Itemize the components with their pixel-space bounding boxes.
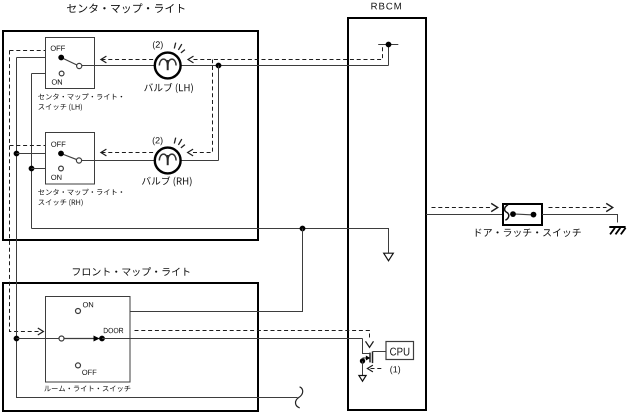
RH switch ON contact circle xyxy=(59,166,64,171)
arrowhead toward door latch xyxy=(491,203,498,211)
switch room-light box xyxy=(46,297,131,383)
wire RH lamp feed xyxy=(82,66,219,161)
wire RH switch OFF feed xyxy=(17,153,62,155)
room switch OFF contact circle xyxy=(76,363,81,368)
wire dashed (1) pointer xyxy=(371,368,382,370)
junction dot room ON tap xyxy=(300,226,306,232)
label CPU xyxy=(390,348,409,356)
chassis ground xyxy=(609,227,625,234)
label centre map light switch LH line1 xyxy=(38,93,122,100)
label (2) RH xyxy=(153,137,163,145)
door latch contact dot right xyxy=(531,212,537,218)
arrowhead toward LH switch xyxy=(101,56,107,63)
label ON (LH switch) xyxy=(52,79,62,84)
wire dashed arrow to ground xyxy=(549,207,607,209)
wire door latch to ground xyxy=(542,215,618,223)
junction dot room switch common tap xyxy=(14,336,20,342)
wire dashed stub to LH switch OFF xyxy=(10,50,47,52)
RH switch arm xyxy=(61,154,77,160)
LH switch arm xyxy=(61,58,77,66)
wire dashed stub to RH switch OFF xyxy=(10,145,47,147)
bulb RH xyxy=(155,148,181,174)
wire room switch common feed xyxy=(17,338,60,340)
LH switch OFF contact dot xyxy=(58,55,64,61)
rays LH bulb xyxy=(174,43,185,53)
wire LH switch OFF feed xyxy=(17,57,62,59)
centre map light module box xyxy=(3,31,258,240)
junction dot RH branch xyxy=(216,63,222,69)
title front map light xyxy=(73,267,190,276)
switch centre-map-light RH box xyxy=(46,133,95,185)
label centre map light switch LH line2 xyxy=(39,104,83,111)
wire dashed DOOR sense line xyxy=(135,331,370,341)
junction dot RH OFF tap xyxy=(14,151,20,157)
wire RBCM to door latch switch xyxy=(426,214,504,216)
label bulb LH xyxy=(144,83,193,93)
wire dashed bus left (to room light switch) xyxy=(10,51,40,332)
label centre map light switch RH line2 xyxy=(39,199,83,206)
RH switch OFF contact dot xyxy=(58,151,64,157)
off-page continuation squiggle xyxy=(296,387,303,408)
junction dot RBCM top stub xyxy=(386,42,392,48)
LH switch ON contact circle xyxy=(59,71,64,76)
wire dashed RH row left segment xyxy=(102,152,155,154)
label centre map light switch RH line1 xyxy=(38,189,122,196)
connector triangle (down) xyxy=(384,253,394,261)
door latch plunger curl xyxy=(505,205,509,220)
wire dashed LH row right segment into RBCM xyxy=(194,46,383,59)
wire solid bus ON line xyxy=(31,74,33,229)
CPU box xyxy=(386,342,414,360)
wire room switch ON branch xyxy=(81,229,303,312)
label ON (room switch) xyxy=(83,302,93,307)
wire gate to CPU xyxy=(373,351,387,353)
room switch arm arrow to DOOR xyxy=(64,338,94,340)
label OFF (room switch) xyxy=(82,370,96,375)
title centre map light xyxy=(67,3,185,13)
door latch contact dot left xyxy=(510,211,516,217)
arrowhead toward RH bulb xyxy=(188,149,194,156)
wire dashed arrow to door latch xyxy=(432,207,492,209)
arrowhead toward ground xyxy=(606,203,613,211)
RH switch pole circle xyxy=(76,158,81,163)
transistor Q (output driver) xyxy=(363,352,373,364)
LH switch pole circle xyxy=(77,63,82,68)
wire solid bus OFF line (to room switch common and off-page) xyxy=(17,58,298,398)
bulb LH xyxy=(155,53,181,79)
transistor source junction dot xyxy=(360,358,365,363)
rays RH bulb xyxy=(174,138,185,148)
door latch contact link xyxy=(513,214,534,215)
label door latch switch xyxy=(476,228,581,237)
wire LH lamp feed xyxy=(82,45,399,66)
front map light module box xyxy=(3,283,258,411)
wire LH switch ON feed xyxy=(32,73,60,75)
label ON (RH switch) xyxy=(51,175,61,180)
junction dot RH ON tap xyxy=(29,166,35,172)
RBCM module box xyxy=(348,18,426,410)
ground connector triangle xyxy=(359,376,366,382)
room switch DOOR contact dot xyxy=(99,336,105,342)
label OFF (RH switch) xyxy=(51,142,65,147)
label OFF (LH switch) xyxy=(51,46,65,51)
wire source to ground xyxy=(362,361,364,375)
wire RH switch ON feed xyxy=(32,168,59,170)
wire dashed LH row left segment xyxy=(102,59,155,61)
switch door latch box xyxy=(503,204,542,225)
label DOOR (room switch) xyxy=(104,328,124,333)
label (2) LH xyxy=(153,41,163,49)
label room light switch xyxy=(44,386,130,392)
wire dashed RH row right segment xyxy=(193,60,213,153)
room switch common pole circle xyxy=(59,336,64,341)
label RBCM xyxy=(371,3,401,10)
arrowhead toward LH bulb xyxy=(188,56,194,63)
arrowhead down into transistor node xyxy=(366,341,374,347)
arrowhead (1) xyxy=(367,365,373,372)
arrowhead toward RH switch xyxy=(101,149,107,156)
label bulb RH xyxy=(142,176,192,186)
room switch ON contact circle xyxy=(76,309,81,314)
arrowhead into room light switch xyxy=(38,328,44,335)
wire ON bus to RBCM connector xyxy=(32,229,389,253)
wire DOOR line to transistor xyxy=(102,339,369,354)
label (1) xyxy=(390,366,400,374)
switch centre-map-light LH box xyxy=(46,38,95,89)
